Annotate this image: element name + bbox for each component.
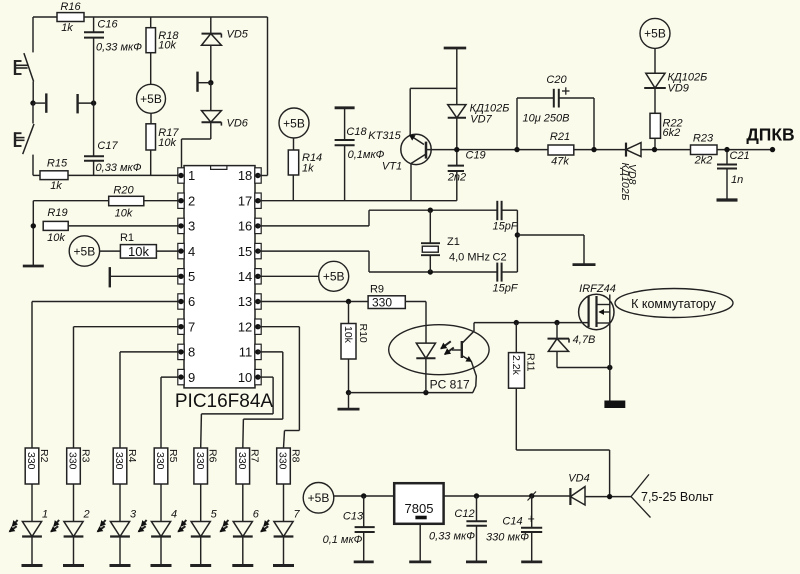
svg-text:VD5: VD5 xyxy=(227,29,249,41)
svg-text:10k: 10k xyxy=(342,326,354,344)
svg-text:7: 7 xyxy=(293,509,300,521)
svg-text:330 мкФ: 330 мкФ xyxy=(486,532,529,544)
svg-text:10: 10 xyxy=(238,370,252,385)
svg-text:R21: R21 xyxy=(550,131,570,143)
svg-text:2k2: 2k2 xyxy=(694,155,713,167)
svg-text:5: 5 xyxy=(211,509,218,521)
svg-text:330: 330 xyxy=(372,296,392,310)
svg-text:R19: R19 xyxy=(47,207,67,219)
svg-text:R2: R2 xyxy=(38,449,50,463)
svg-text:R1: R1 xyxy=(120,232,134,244)
svg-text:VD4: VD4 xyxy=(568,473,589,485)
svg-text:4,7В: 4,7В xyxy=(573,334,596,346)
svg-text:R8: R8 xyxy=(289,449,301,463)
svg-text:4: 4 xyxy=(188,244,195,259)
svg-text:+5В: +5В xyxy=(644,27,666,41)
svg-text:330: 330 xyxy=(25,452,37,470)
svg-text:15pF: 15pF xyxy=(492,282,518,294)
svg-text:R16: R16 xyxy=(60,1,81,13)
svg-text:7805: 7805 xyxy=(405,501,434,516)
svg-text:R10: R10 xyxy=(357,324,369,343)
svg-text:1k: 1k xyxy=(50,180,62,192)
svg-text:ДПКВ: ДПКВ xyxy=(746,124,794,144)
svg-text:330: 330 xyxy=(277,452,289,470)
svg-text:PIC16F84A: PIC16F84A xyxy=(175,391,274,412)
svg-text:3: 3 xyxy=(130,509,137,521)
svg-text:330: 330 xyxy=(67,452,79,470)
svg-text:15: 15 xyxy=(238,244,252,259)
svg-text:6: 6 xyxy=(253,509,260,521)
svg-text:+5В: +5В xyxy=(140,92,162,106)
svg-text:10k: 10k xyxy=(158,137,176,149)
svg-text:8: 8 xyxy=(188,345,195,360)
svg-text:0,33 мкФ: 0,33 мкФ xyxy=(96,41,142,53)
svg-text:7: 7 xyxy=(188,319,195,334)
svg-text:12: 12 xyxy=(238,319,252,334)
svg-text:+: + xyxy=(528,512,535,526)
svg-text:R20: R20 xyxy=(113,185,134,197)
svg-text:330: 330 xyxy=(113,452,125,470)
svg-text:C17: C17 xyxy=(97,140,118,152)
svg-text:C19: C19 xyxy=(466,150,486,162)
svg-text:10k: 10k xyxy=(115,208,133,220)
svg-text:R23: R23 xyxy=(693,133,714,145)
svg-text:VD8: VD8 xyxy=(626,164,638,185)
svg-text:R9: R9 xyxy=(370,284,384,296)
svg-text:10k: 10k xyxy=(47,232,65,244)
svg-text:1: 1 xyxy=(42,509,48,521)
svg-text:15pF: 15pF xyxy=(492,221,518,233)
svg-text:VD6: VD6 xyxy=(227,118,249,130)
svg-text:330: 330 xyxy=(154,452,166,470)
svg-text:R6: R6 xyxy=(207,449,219,463)
svg-text:C14: C14 xyxy=(502,516,522,528)
svg-text:3: 3 xyxy=(188,219,195,234)
svg-text:R4: R4 xyxy=(126,449,138,463)
svg-text:18: 18 xyxy=(238,168,252,183)
svg-text:47k: 47k xyxy=(551,156,569,168)
svg-text:10μ 250В: 10μ 250В xyxy=(522,113,569,125)
svg-text:C20: C20 xyxy=(546,74,567,86)
svg-text:0,1мкФ: 0,1мкФ xyxy=(348,149,385,161)
svg-text:10k: 10k xyxy=(128,244,149,259)
svg-text:14: 14 xyxy=(238,269,252,284)
svg-text:+5В: +5В xyxy=(308,491,330,505)
svg-text:9: 9 xyxy=(188,370,195,385)
svg-text:6: 6 xyxy=(188,294,195,309)
svg-text:2.2k: 2.2k xyxy=(510,355,522,376)
svg-text:R7: R7 xyxy=(249,449,261,463)
svg-text:13: 13 xyxy=(238,294,252,309)
svg-text:16: 16 xyxy=(238,219,252,234)
svg-text:330: 330 xyxy=(236,452,248,470)
svg-text:VD9: VD9 xyxy=(668,83,689,95)
svg-text:7,5-25 Вольт: 7,5-25 Вольт xyxy=(641,490,714,504)
svg-text:C2: C2 xyxy=(493,252,507,264)
svg-text:1k: 1k xyxy=(61,22,73,34)
svg-text:Z1: Z1 xyxy=(447,236,460,248)
svg-text:10k: 10k xyxy=(158,40,176,52)
svg-text:PC 817: PC 817 xyxy=(430,377,470,391)
svg-text:VT1: VT1 xyxy=(382,161,402,173)
svg-text:4: 4 xyxy=(171,509,177,521)
svg-text:R3: R3 xyxy=(79,449,91,463)
svg-text:C16: C16 xyxy=(97,19,118,31)
svg-text:2n2: 2n2 xyxy=(447,172,466,184)
svg-text:+5В: +5В xyxy=(74,244,96,258)
svg-text:0,33 мкФ: 0,33 мкФ xyxy=(96,162,142,174)
svg-text:2: 2 xyxy=(82,509,89,521)
svg-text:0,33 мкФ: 0,33 мкФ xyxy=(429,530,475,542)
svg-text:1n: 1n xyxy=(731,174,743,186)
svg-text:11: 11 xyxy=(239,345,253,360)
svg-text:C18: C18 xyxy=(346,126,367,138)
svg-text:330: 330 xyxy=(194,452,206,470)
svg-text:1: 1 xyxy=(188,168,195,183)
svg-text:+5В: +5В xyxy=(283,116,305,130)
svg-text:R11: R11 xyxy=(525,353,537,372)
svg-text:R5: R5 xyxy=(167,449,179,463)
svg-text:C13: C13 xyxy=(343,510,364,522)
svg-text:+5В: +5В xyxy=(323,270,345,284)
svg-text:C12: C12 xyxy=(454,508,474,520)
svg-text:R15: R15 xyxy=(47,158,68,170)
svg-text:0,1 мкФ: 0,1 мкФ xyxy=(323,534,363,546)
svg-text:5: 5 xyxy=(188,269,195,284)
svg-text:6k2: 6k2 xyxy=(663,127,681,139)
svg-text:К коммутатору: К коммутатору xyxy=(631,297,717,311)
svg-text:17: 17 xyxy=(238,193,252,208)
svg-text:1k: 1k xyxy=(302,163,314,175)
svg-text:KT315: KT315 xyxy=(368,130,401,142)
svg-text:VD7: VD7 xyxy=(470,114,492,126)
svg-text:IRFZ44: IRFZ44 xyxy=(579,283,616,295)
svg-text:4,0 MHz: 4,0 MHz xyxy=(449,252,490,264)
svg-text:C21: C21 xyxy=(730,150,750,162)
svg-text:2: 2 xyxy=(188,193,195,208)
